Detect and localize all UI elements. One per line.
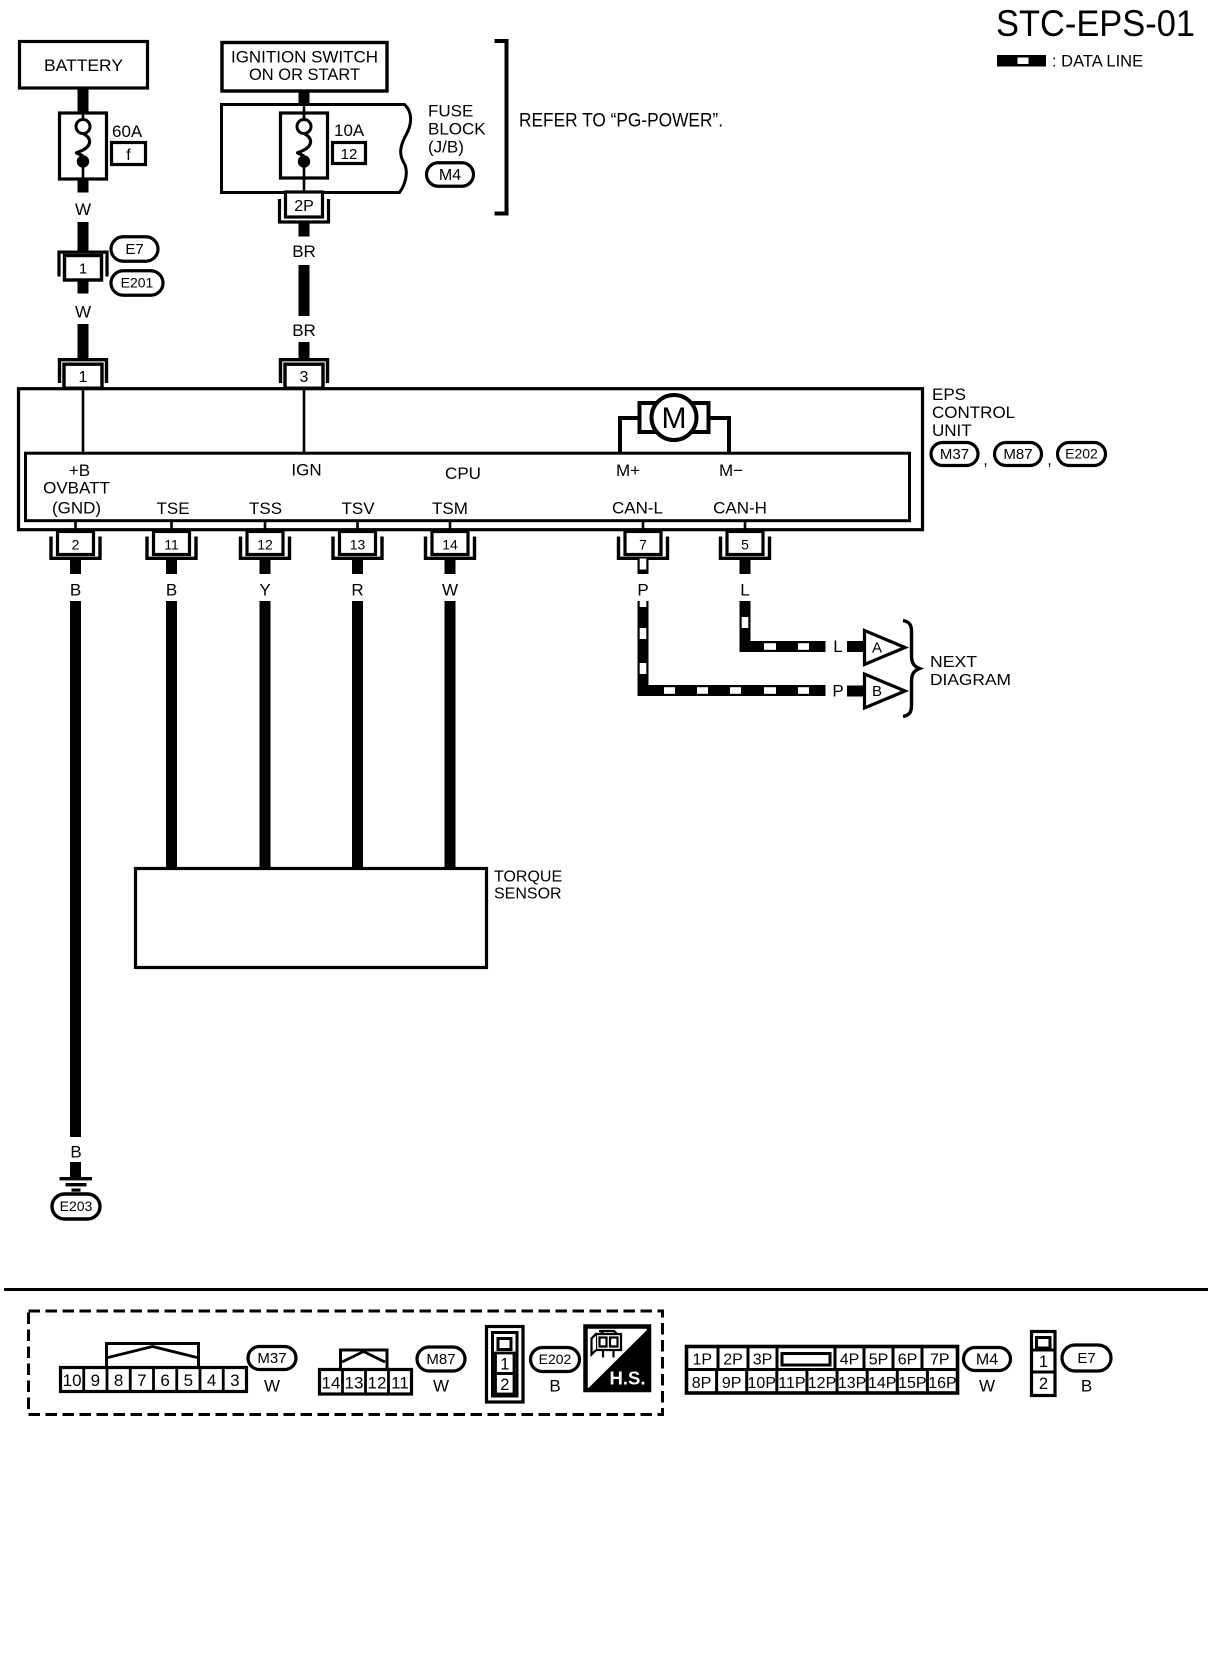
- EPS connector pin 1 top: [60, 360, 107, 389]
- ground symbol: [60, 1177, 93, 1192]
- refer-to bracket: [495, 41, 507, 214]
- data line CAN-H L vertical: [740, 601, 751, 652]
- EPS control unit outer box: [19, 389, 923, 530]
- EPS control unit labels: [932, 385, 1015, 440]
- wire W to EPS pin 1: [78, 324, 89, 360]
- H.S. view icon: [586, 1327, 650, 1391]
- svg-text:W: W: [75, 200, 91, 219]
- connector face E202: [487, 1327, 524, 1403]
- svg-text:12P: 12P: [808, 1375, 836, 1392]
- svg-text:L: L: [740, 581, 749, 600]
- svg-text:W: W: [433, 1377, 449, 1396]
- svg-text:2: 2: [500, 1376, 509, 1394]
- svg-text:60A: 60A: [112, 122, 143, 141]
- svg-text:M37: M37: [940, 446, 969, 463]
- svg-text:7P: 7P: [930, 1352, 950, 1369]
- svg-text:1: 1: [500, 1356, 509, 1374]
- wire B pin11 to torque sensor: [166, 601, 177, 868]
- svg-text:1: 1: [79, 261, 87, 278]
- svg-text:E202: E202: [539, 1351, 572, 1367]
- svg-text:6: 6: [160, 1371, 169, 1390]
- svg-text:6P: 6P: [898, 1352, 918, 1369]
- wire BR: [299, 265, 310, 316]
- note NEXT DIAGRAM: [930, 654, 1011, 689]
- svg-text:CAN-H: CAN-H: [713, 499, 767, 518]
- wire stub pin 12: [260, 559, 271, 575]
- wire W pin14 to torque sensor: [445, 601, 456, 868]
- svg-text:R: R: [351, 581, 363, 600]
- data stub pin 7 (hollow): [638, 559, 649, 575]
- lead pin3 to IGN: [303, 390, 306, 453]
- svg-text:3: 3: [300, 369, 309, 386]
- EPS connector pin 12 bottom: [241, 532, 290, 559]
- svg-text:TSS: TSS: [249, 499, 282, 518]
- ground stub: [70, 1162, 81, 1177]
- connector ref M87: [417, 1347, 465, 1371]
- wire stub below fusible link: [78, 179, 89, 193]
- svg-text:CONTROL: CONTROL: [932, 403, 1015, 422]
- svg-text:3P: 3P: [753, 1352, 773, 1369]
- svg-text:BLOCK: BLOCK: [428, 120, 486, 139]
- data line CAN-L P horizontal: [638, 685, 826, 696]
- lead pin1 to +B: [82, 390, 85, 453]
- connector ref E7: [1062, 1345, 1111, 1371]
- EPS connector pin 7 bottom: [619, 532, 668, 559]
- svg-text:M: M: [662, 402, 687, 435]
- svg-text:5: 5: [741, 537, 749, 553]
- svg-text:11: 11: [164, 537, 179, 553]
- svg-text:E7: E7: [1077, 1350, 1095, 1367]
- dashed detail box: [29, 1311, 663, 1415]
- svg-text:15P: 15P: [898, 1375, 926, 1392]
- connector face M87: [320, 1350, 412, 1394]
- svg-text:SENSOR: SENSOR: [494, 886, 562, 903]
- svg-text:5P: 5P: [869, 1352, 889, 1369]
- svg-text:13P: 13P: [838, 1375, 866, 1392]
- svg-text:Y: Y: [259, 581, 270, 600]
- svg-text:11P: 11P: [778, 1375, 805, 1392]
- lead EPS pin 2: [74, 521, 77, 531]
- lead EPS pin 7: [642, 521, 645, 531]
- wire stub pin 13: [352, 559, 363, 575]
- svg-text:5: 5: [184, 1371, 193, 1390]
- svg-text:B: B: [70, 1143, 81, 1162]
- svg-text:H.S.: H.S.: [610, 1368, 646, 1389]
- battery B+ box: [20, 42, 148, 89]
- separator line: [4, 1288, 1208, 1291]
- svg-text:BR: BR: [292, 321, 316, 340]
- svg-text:11: 11: [391, 1374, 409, 1393]
- lead EPS pin 14: [449, 521, 452, 531]
- connector refs M37 M87 E202: [931, 443, 1106, 470]
- data line CAN-L P vertical: [638, 601, 649, 696]
- svg-text:1: 1: [1039, 1353, 1048, 1371]
- svg-text:13: 13: [345, 1374, 364, 1393]
- next-diagram arrow A: [865, 631, 906, 665]
- legend: DATA LINE symbol: [997, 53, 1143, 71]
- svg-text:W: W: [264, 1377, 280, 1396]
- fusible link f 60A: [60, 113, 107, 179]
- EPS connector pin 5 bottom: [721, 532, 770, 559]
- lead EPS pin 12: [264, 521, 267, 531]
- svg-text:UNIT: UNIT: [932, 421, 972, 440]
- svg-text:M−: M−: [719, 461, 743, 480]
- ignition switch box: [222, 43, 387, 92]
- next-diagram arrow B: [865, 674, 906, 708]
- ground ref E203: [52, 1194, 100, 1219]
- svg-text:2: 2: [1039, 1375, 1048, 1393]
- lead EPS pin 13: [356, 521, 359, 531]
- svg-text:10A: 10A: [334, 121, 365, 140]
- svg-text:M87: M87: [426, 1351, 455, 1368]
- svg-text:10P: 10P: [748, 1375, 776, 1392]
- svg-text:2P: 2P: [723, 1352, 743, 1369]
- wire stub below 2P: [299, 223, 310, 237]
- svg-text:16P: 16P: [928, 1375, 956, 1392]
- connector face M37: [61, 1344, 247, 1392]
- wire Y pin12 to torque sensor: [260, 601, 271, 868]
- svg-text:B: B: [872, 683, 882, 700]
- EPS pin labels row2: [43, 479, 767, 519]
- EPS control unit inner box: [26, 453, 910, 521]
- svg-text:NEXT: NEXT: [930, 654, 977, 671]
- wire battery to fusible link: [78, 88, 89, 114]
- svg-text:12: 12: [257, 537, 273, 553]
- svg-text:9P: 9P: [722, 1375, 742, 1392]
- svg-text:P: P: [637, 581, 648, 600]
- connector face E7: [1032, 1332, 1056, 1396]
- svg-text:STC-EPS-01: STC-EPS-01: [996, 3, 1195, 44]
- svg-text:BR: BR: [292, 242, 316, 261]
- torque sensor labels: [494, 869, 562, 903]
- svg-text:FUSE: FUSE: [428, 102, 473, 121]
- wire W to E7/E201 junction: [78, 222, 89, 252]
- svg-text:10: 10: [63, 1371, 82, 1390]
- stub to arrow B: [847, 686, 863, 697]
- svg-text:(J/B): (J/B): [428, 138, 464, 157]
- wire stub pin 11: [166, 559, 177, 575]
- svg-text:TSE: TSE: [156, 499, 189, 518]
- svg-text:3: 3: [230, 1371, 239, 1390]
- svg-text:: DATA LINE: : DATA LINE: [1052, 53, 1143, 71]
- EPS connector pin 14 bottom: [426, 532, 475, 559]
- svg-text:B: B: [70, 581, 81, 600]
- svg-text:,: ,: [1047, 450, 1052, 469]
- svg-text:W: W: [442, 581, 458, 600]
- svg-text:TORQUE: TORQUE: [494, 869, 562, 886]
- svg-text:TSM: TSM: [432, 499, 468, 518]
- connector face M4: [687, 1347, 959, 1394]
- svg-text:E203: E203: [60, 1198, 93, 1214]
- wire stub pin 2: [70, 559, 81, 575]
- svg-text:,: ,: [983, 450, 988, 469]
- svg-text:14: 14: [322, 1374, 341, 1393]
- svg-text:M+: M+: [616, 461, 640, 480]
- svg-text:M4: M4: [439, 167, 461, 184]
- fuse block labels: [428, 102, 486, 157]
- stub to arrow A: [847, 641, 863, 652]
- motor M: [652, 395, 697, 440]
- svg-text:(GND): (GND): [52, 499, 101, 518]
- svg-text:2P: 2P: [294, 198, 314, 215]
- connector ref E201: [111, 271, 163, 296]
- wire ignition to fuse block: [299, 91, 310, 105]
- wire stub pin 14: [445, 559, 456, 575]
- connector ref E202: [531, 1348, 580, 1372]
- svg-text:B: B: [1081, 1377, 1092, 1396]
- fuse 12 10A: [281, 113, 328, 178]
- svg-text:7: 7: [639, 537, 647, 553]
- svg-text:E7: E7: [125, 241, 143, 258]
- svg-text:A: A: [872, 640, 882, 657]
- data line CAN-H L horizontal: [740, 641, 826, 652]
- EPS connector pin 3 top: [281, 360, 328, 389]
- svg-text:12: 12: [368, 1374, 387, 1393]
- svg-text:8P: 8P: [692, 1375, 712, 1392]
- wire R pin13 to torque sensor: [352, 601, 363, 868]
- EPS connector pin 13 bottom: [333, 532, 382, 559]
- wire stub pin 5: [740, 559, 751, 575]
- svg-text:TSV: TSV: [341, 499, 375, 518]
- svg-text:ON OR START: ON OR START: [249, 66, 360, 84]
- svg-text:12: 12: [341, 146, 358, 163]
- svg-text:M37: M37: [257, 1350, 286, 1367]
- svg-text:9: 9: [91, 1371, 100, 1390]
- svg-text:REFER TO “PG-POWER”.: REFER TO “PG-POWER”.: [519, 111, 723, 132]
- EPS pin labels row1: [69, 461, 743, 484]
- connector ref M4: [964, 1348, 1011, 1371]
- connector E7-E201 junction pin 1: [59, 252, 107, 280]
- wire BR to EPS pin 3: [299, 342, 310, 360]
- wire B pin2 down to ground: [70, 601, 81, 1137]
- svg-text:W: W: [979, 1377, 995, 1396]
- svg-text:7: 7: [137, 1371, 146, 1390]
- svg-text:1P: 1P: [692, 1352, 712, 1369]
- torque sensor box: [136, 869, 487, 968]
- svg-text:+B: +B: [69, 461, 90, 480]
- svg-text:f: f: [126, 147, 131, 164]
- svg-text:P: P: [832, 682, 843, 701]
- connector ref M37: [248, 1347, 296, 1370]
- wire stub below junction: [78, 280, 89, 294]
- svg-text:1: 1: [79, 369, 88, 386]
- lead EPS pin 11: [170, 521, 173, 531]
- svg-text:W: W: [75, 303, 91, 322]
- svg-text:DIAGRAM: DIAGRAM: [930, 672, 1011, 689]
- fuse block J/B outline: [222, 105, 411, 193]
- svg-text:B: B: [549, 1377, 560, 1396]
- brace: [903, 621, 920, 717]
- motor brush box: [640, 403, 709, 432]
- lead EPS pin 5: [744, 521, 747, 531]
- connector 2P below fuse block: [280, 192, 329, 222]
- svg-text:IGNITION SWITCH: IGNITION SWITCH: [231, 49, 378, 67]
- EPS connector pin 2 bottom: [51, 532, 100, 559]
- connector ref E7: [111, 237, 158, 262]
- svg-text:M87: M87: [1003, 446, 1032, 463]
- connector ref M4: [427, 163, 474, 187]
- svg-text:OVBATT: OVBATT: [43, 479, 110, 498]
- svg-text:E202: E202: [1065, 446, 1098, 462]
- svg-text:M4: M4: [976, 1351, 998, 1368]
- svg-text:CPU: CPU: [445, 464, 481, 483]
- motor leads: [620, 418, 729, 454]
- title STC-EPS-01: [996, 3, 1195, 44]
- fuse number box 12: [333, 143, 366, 164]
- svg-text:EPS: EPS: [932, 385, 966, 404]
- svg-text:14P: 14P: [868, 1375, 896, 1392]
- EPS connector pin 11 bottom: [147, 532, 196, 559]
- fuse letter box f: [112, 143, 146, 165]
- svg-text:8: 8: [114, 1371, 123, 1390]
- svg-text:4: 4: [207, 1371, 216, 1390]
- svg-text:2: 2: [72, 537, 80, 553]
- svg-text:E201: E201: [121, 275, 154, 291]
- svg-text:BATTERY: BATTERY: [44, 56, 123, 75]
- svg-text:B: B: [166, 581, 177, 600]
- svg-text:4P: 4P: [840, 1352, 860, 1369]
- svg-text:14: 14: [442, 537, 458, 553]
- lead into fuse 12: [303, 106, 306, 118]
- svg-text:IGN: IGN: [291, 461, 321, 480]
- svg-text:13: 13: [350, 537, 366, 553]
- svg-text:CAN-L: CAN-L: [612, 499, 663, 518]
- svg-text:L: L: [833, 637, 842, 656]
